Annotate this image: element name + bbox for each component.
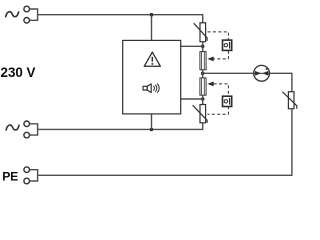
- wire L down to varistor 1: [202, 14, 204, 23]
- gas discharge tube gas dot: [266, 68, 268, 70]
- status indicator 2: [223, 96, 232, 106]
- wire right rail lower to PE: [38, 109, 292, 176]
- monitoring module box: [123, 40, 181, 114]
- node disconnect2 / box stub: [201, 97, 205, 101]
- terminal L lower circle: [24, 18, 30, 24]
- wire varistor1 to disconnect1: [202, 42, 204, 52]
- wire junction to box bottom: [151, 114, 153, 129]
- terminal L bracket: [30, 9, 38, 20]
- varistor 1 body: [200, 23, 206, 42]
- wire stub box to node (top): [181, 45, 203, 47]
- terminal PE upper circle: [24, 167, 30, 173]
- wire stub box to node (bottom): [181, 98, 203, 100]
- node N-box junction: [150, 128, 154, 132]
- svg-text:230 V: 230 V: [1, 65, 36, 80]
- node L-box junction: [150, 13, 154, 17]
- gas discharge tube electrodes: [254, 72, 269, 74]
- AC source symbol L (tilde): [6, 12, 19, 17]
- wire N horizontal: [38, 128, 204, 130]
- thermal disconnect 2: [200, 78, 206, 95]
- svg-text:PE: PE: [2, 170, 18, 184]
- buzzer icon: [143, 84, 159, 93]
- terminal L upper circle: [24, 6, 30, 12]
- terminal N lower circle: [24, 132, 30, 138]
- varistor 1 diagonal: [194, 23, 207, 41]
- wire disconnect1 to disconnect2: [202, 70, 204, 78]
- status indicator 1: [223, 40, 232, 50]
- varistor 2 body: [200, 105, 206, 123]
- wire disconnect2 to varistor2: [202, 95, 204, 104]
- varistor 2 diagonal: [193, 105, 208, 123]
- node disconnect1 / GDT branch: [201, 72, 205, 76]
- terminal N bracket: [30, 124, 38, 135]
- node varistor1 / disconnect1: [201, 45, 205, 49]
- terminal N upper circle: [24, 121, 30, 127]
- dashed link 1: varistor1 to indicator 1 to disconnect1: [208, 32, 229, 40]
- varistor 3 diagonal: [282, 92, 296, 109]
- wire GDT to right rail: [270, 72, 292, 74]
- AC source symbol N (tilde): [6, 125, 19, 130]
- wire varistor 2 down to N wire: [202, 123, 204, 130]
- warning triangle icon: [144, 52, 160, 66]
- arrow at disconnect 1: [207, 57, 213, 62]
- wire node to gas discharge tube: [203, 72, 254, 74]
- thermal disconnect 1: [200, 52, 206, 70]
- wire right rail upper: [291, 73, 293, 92]
- gas discharge tube circle: [254, 65, 270, 81]
- dashed link 2: disconnect2 to indicator 2 to varistor2: [214, 84, 229, 96]
- varistor 3 body (N-PE): [288, 92, 294, 109]
- wire L horizontal: [38, 14, 203, 16]
- terminal PE lower circle: [24, 178, 30, 184]
- arrow at disconnect 2: [207, 82, 213, 87]
- wire junction to box top: [151, 15, 153, 41]
- terminal PE bracket: [30, 170, 38, 181]
